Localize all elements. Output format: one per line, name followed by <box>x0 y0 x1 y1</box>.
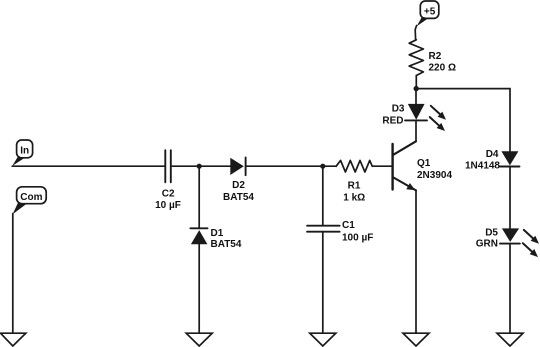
wire: C2 to node A <box>172 165 231 167</box>
svg-text:Com: Com <box>20 192 42 203</box>
svg-text:D4: D4 <box>486 149 499 160</box>
wire: D1 to ground <box>198 244 200 333</box>
capacitor C2 <box>155 150 181 211</box>
svg-text:220 Ω: 220 Ω <box>429 63 456 74</box>
svg-text:D1: D1 <box>211 228 224 239</box>
resistor R1 <box>336 160 372 203</box>
svg-text:RED: RED <box>382 116 403 127</box>
LED D5 <box>476 228 539 258</box>
node C junction <box>414 86 419 91</box>
wire: node A to D1 <box>198 166 200 228</box>
svg-text:BAT54: BAT54 <box>223 192 254 203</box>
svg-text:In: In <box>20 145 29 156</box>
svg-text:C1: C1 <box>342 220 355 231</box>
terminal label Com <box>13 187 47 215</box>
ground (Com) <box>1 333 26 346</box>
svg-text:+5: +5 <box>424 6 436 17</box>
transistor Q1 <box>393 141 453 190</box>
svg-text:D5: D5 <box>485 228 498 239</box>
node A junction <box>197 164 202 169</box>
wire: D4 to D5 <box>509 167 511 229</box>
ground (D5 branch) <box>497 333 523 346</box>
svg-text:Q1: Q1 <box>417 158 431 169</box>
wire: R1 to Q1 base <box>372 165 392 167</box>
LED D3 <box>382 103 446 131</box>
wire: collector to D3 <box>415 120 417 141</box>
wire: D5 to ground <box>509 244 511 334</box>
capacitor C1 <box>307 220 373 243</box>
wire: D3 anode to node C <box>415 89 417 104</box>
svg-text:BAT54: BAT54 <box>211 239 242 250</box>
node B junction <box>320 164 325 169</box>
svg-text:1 kΩ: 1 kΩ <box>343 192 365 203</box>
power +5 label <box>415 1 439 40</box>
wire: In to C2 <box>12 165 164 167</box>
terminal label In <box>12 140 32 166</box>
svg-text:GRN: GRN <box>476 238 498 249</box>
svg-text:100 µF: 100 µF <box>342 232 373 243</box>
wire: Com to ground <box>12 214 14 334</box>
svg-text:D2: D2 <box>232 180 245 191</box>
svg-text:1N4148: 1N4148 <box>465 161 500 172</box>
svg-text:2N3904: 2N3904 <box>417 170 452 181</box>
diode D4 <box>465 149 520 172</box>
svg-text:C2: C2 <box>162 188 175 199</box>
wire: D2 to node B <box>247 165 337 167</box>
diode D1 <box>190 228 241 250</box>
svg-text:D3: D3 <box>392 103 405 114</box>
ground (C1 branch) <box>310 333 336 346</box>
svg-text:10 µF: 10 µF <box>155 200 181 211</box>
wire: C1 to ground <box>322 232 324 334</box>
wire: node B to C1 <box>322 166 324 226</box>
svg-text:R1: R1 <box>348 180 361 191</box>
diode D2 <box>223 158 254 203</box>
wire: Q1 emitter to ground <box>415 190 417 333</box>
ground (Q1 emitter) <box>403 333 429 346</box>
wire: R2 to node C <box>415 76 417 89</box>
wire: node C to right branch <box>419 89 510 152</box>
resistor R2 <box>409 40 456 76</box>
svg-text:R2: R2 <box>429 51 442 62</box>
ground (D1 branch) <box>186 333 212 346</box>
